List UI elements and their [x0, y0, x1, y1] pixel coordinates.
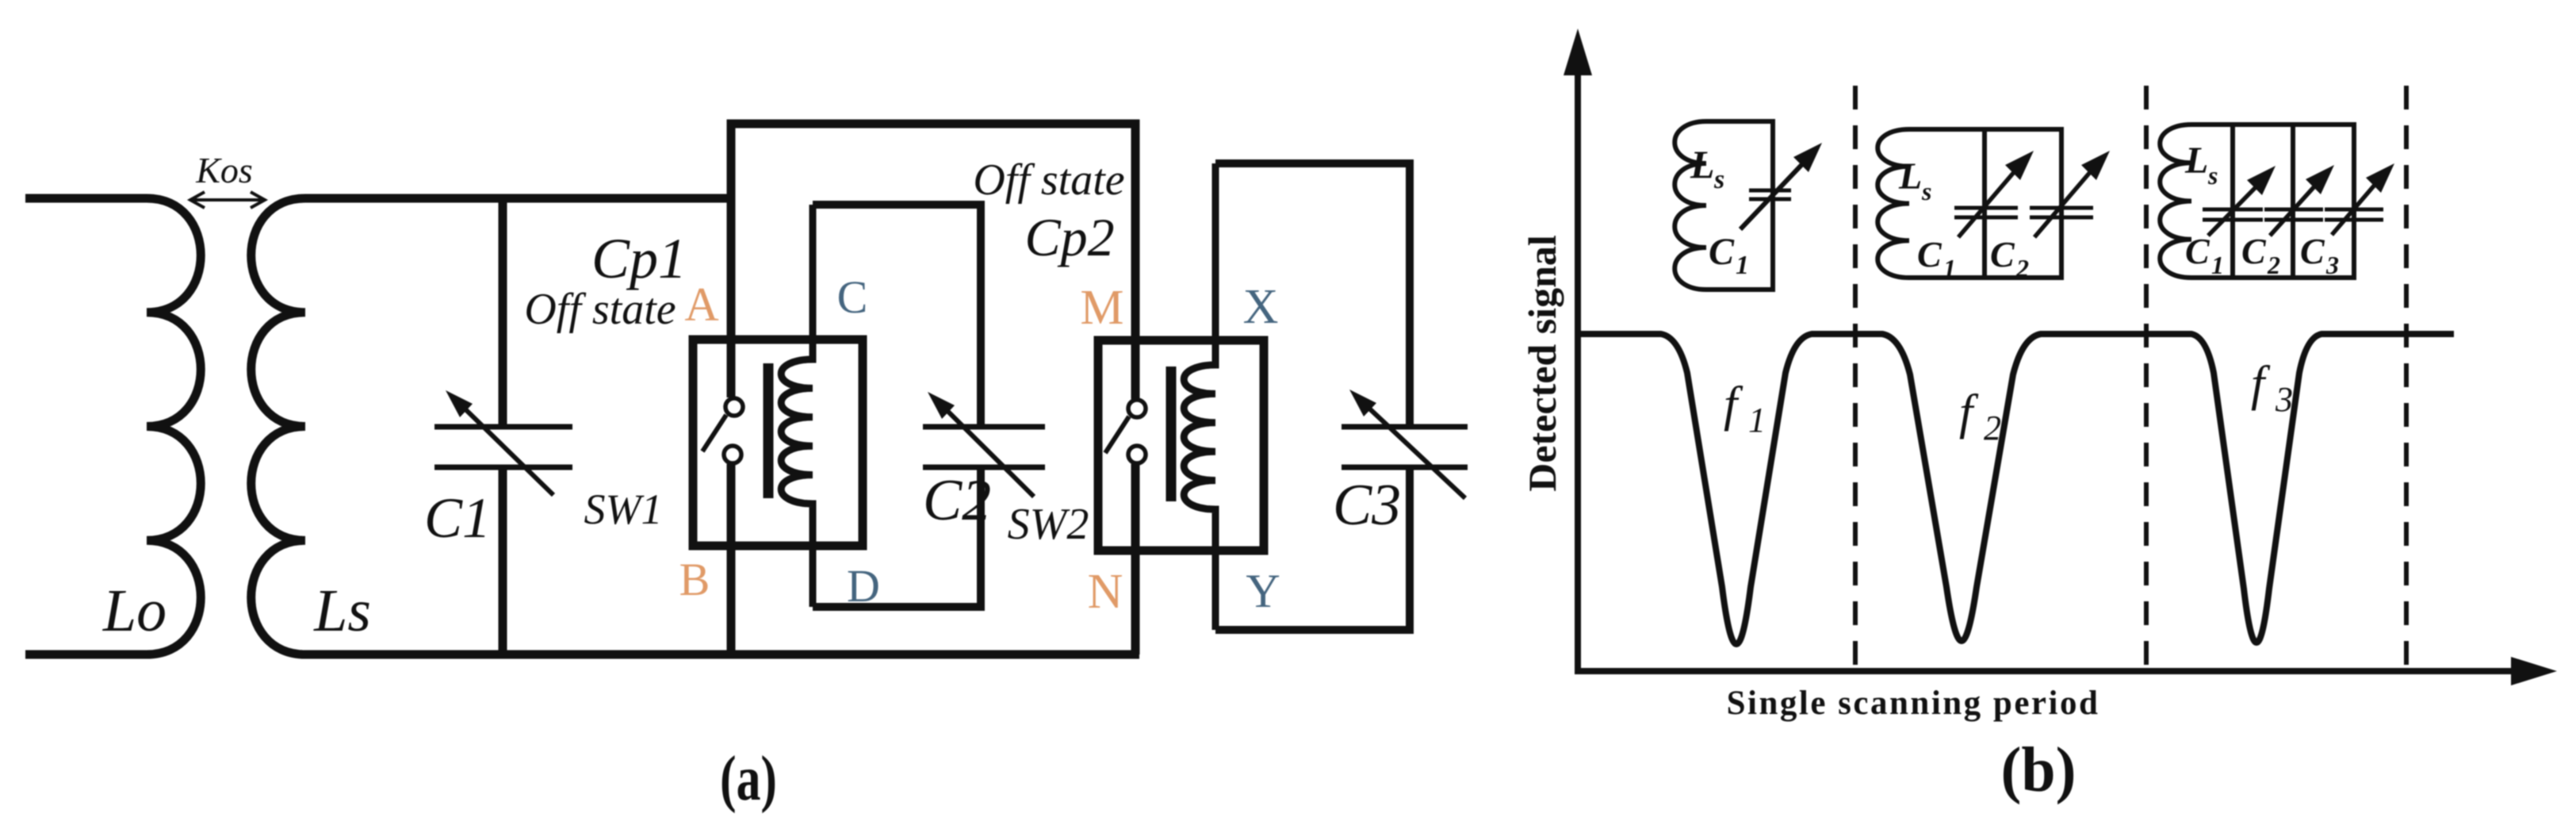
svg-text:Cp2: Cp2 [1024, 207, 1114, 267]
svg-text:B: B [679, 554, 710, 605]
svg-text:Kos: Kos [195, 150, 253, 190]
svg-text:C: C [2185, 231, 2210, 271]
svg-text:N: N [1088, 565, 1123, 619]
svg-text:2: 2 [2267, 251, 2280, 279]
svg-text:C: C [1990, 234, 2015, 274]
svg-text:SW2: SW2 [1008, 500, 1089, 549]
svg-text:L: L [2184, 140, 2208, 182]
svg-text:Off state: Off state [524, 285, 676, 334]
svg-text:A: A [684, 278, 718, 331]
svg-text:1: 1 [1943, 254, 1956, 282]
svg-text:C: C [837, 271, 868, 323]
svg-text:L: L [1690, 142, 1715, 186]
svg-text:(b): (b) [2001, 735, 2076, 805]
svg-text:C: C [1917, 234, 1943, 274]
svg-text:SW1: SW1 [584, 486, 663, 533]
svg-text:Ls: Ls [313, 578, 371, 644]
svg-text:3: 3 [2275, 380, 2293, 419]
svg-text:s: s [2207, 161, 2218, 190]
svg-text:3: 3 [2325, 251, 2339, 279]
svg-text:C1: C1 [424, 486, 491, 550]
svg-text:C2: C2 [923, 468, 991, 533]
svg-text:1: 1 [1748, 401, 1766, 439]
svg-text:2: 2 [1984, 409, 2001, 447]
svg-text:C: C [1709, 231, 1735, 273]
svg-text:M: M [1080, 281, 1123, 335]
svg-text:Y: Y [1246, 565, 1280, 617]
svg-text:s: s [1921, 177, 1931, 205]
svg-text:C: C [2241, 231, 2267, 271]
svg-text:X: X [1243, 280, 1279, 334]
svg-text:Cp1: Cp1 [591, 227, 687, 290]
svg-text:C: C [2300, 231, 2325, 271]
svg-text:s: s [1713, 165, 1724, 194]
svg-text:2: 2 [2015, 254, 2029, 282]
svg-text:1: 1 [2211, 251, 2224, 279]
svg-text:C3: C3 [1333, 473, 1401, 538]
svg-text:Lo: Lo [102, 578, 167, 644]
svg-text:(a): (a) [720, 744, 777, 814]
svg-text:1: 1 [1736, 251, 1749, 280]
svg-text:Single scanning period: Single scanning period [1727, 685, 2100, 722]
svg-text:Detected signal: Detected signal [1520, 235, 1564, 492]
svg-text:D: D [847, 560, 880, 612]
svg-text:Off state: Off state [973, 155, 1124, 205]
svg-text:L: L [1898, 155, 1922, 198]
